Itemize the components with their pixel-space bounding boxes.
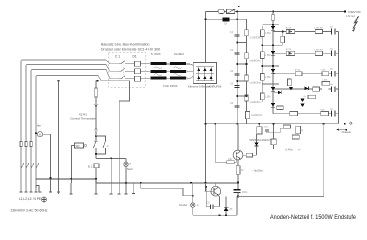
- mid rail: [206, 123, 339, 125]
- wire cap down to return rail: [237, 192, 239, 196]
- thermostat contact symbol: [95, 125, 98, 136]
- svg-text:Drossel oder Elemente SC3 4 HV: Drossel oder Elemente SC3 4 HV 30K: [101, 48, 161, 52]
- node fan drop on rail: [50, 177, 52, 179]
- node second rail: [205, 18, 207, 20]
- contactor contacts: [119, 61, 129, 79]
- dashed link contactor: [122, 62, 124, 78]
- box R26: [292, 135, 299, 139]
- zener D10: [254, 142, 258, 146]
- small diodes x302: [300, 99, 304, 103]
- ladder row nodes: [236, 42, 238, 44]
- row3 cap: [331, 71, 335, 77]
- node sonder: [192, 195, 194, 197]
- wire drop x58.5: [58, 81, 60, 192]
- svg-text:xxx0kOhm: xxx0kOhm: [250, 101, 261, 104]
- node fuse branch: [97, 80, 99, 82]
- row4 cap: [331, 86, 335, 92]
- svg-text:xxx0kOhm: xxx0kOhm: [250, 60, 261, 63]
- wire Q2 right resistor: [246, 153, 252, 157]
- node emitter rail: [237, 182, 239, 184]
- svg-text:Anoden-Netzteil f. 1500W Endst: Anoden-Netzteil f. 1500W Endstufe: [270, 214, 356, 221]
- transformer T1 windings: [151, 62, 167, 79]
- row5 resistor: [290, 112, 298, 116]
- contactor dashed box: [109, 53, 146, 88]
- HV flash symbol: [353, 16, 359, 28]
- terminal ticks L1 L2 L3 N PE: [20, 191, 42, 193]
- chassis arrow: [338, 129, 346, 131]
- cap C10 polarized: [237, 188, 239, 191]
- right chain row1: [273, 31, 339, 33]
- wire Q2 collector: [237, 124, 239, 150]
- svg-text:L1,L2,L3: L1,L2,L3: [19, 197, 32, 201]
- ladder column V2 resistors: [246, 19, 248, 123]
- resistor R23 emitter: [236, 166, 240, 175]
- right chain row5: [273, 113, 339, 115]
- svg-text:U ANa: U ANa: [285, 148, 293, 152]
- switch S1 right contact: [96, 136, 106, 154]
- V2 labels: [250, 37, 263, 104]
- wire: [95, 97, 97, 125]
- wire contactor exit down: [119, 81, 129, 183]
- resistor R21: [257, 127, 262, 134]
- wire Q3 collector up: [215, 183, 217, 186]
- wire lamp bottom: [125, 167, 127, 184]
- node lamp feed: [110, 158, 112, 160]
- T2 terminal circles: [186, 63, 188, 79]
- svg-text:Control Termostate: Control Termostate: [70, 117, 96, 121]
- row4 vertical resistor: [288, 79, 292, 86]
- wire L2 bus: [26, 65, 119, 193]
- bottom rail left dark: [36, 178, 96, 180]
- fuse F1c on L3: [30, 142, 32, 147]
- wire W1 left loop: [72, 146, 75, 184]
- T1 winding squiggles: [154, 67, 162, 76]
- wire junction to lamp line: [95, 154, 97, 158]
- terminal tick x58.5: [57, 191, 60, 193]
- svg-text:Netz: Netz: [127, 167, 133, 171]
- bridge rails: [196, 67, 214, 81]
- wire control branch x96: [95, 81, 97, 88]
- svg-text:Bausatz bzw. Bau-Kombination: Bausatz bzw. Bau-Kombination: [101, 42, 149, 46]
- node rejoin: [95, 153, 97, 155]
- svg-text:100n: 100n: [242, 191, 248, 194]
- node mid rail: [205, 123, 207, 125]
- transistor Q3: [211, 186, 221, 196]
- svg-text:1,5M: 1,5M: [265, 76, 270, 79]
- row3 box1: [295, 72, 302, 76]
- svg-text:1,5M: 1,5M: [322, 80, 327, 82]
- svg-text:fan: fan: [37, 124, 41, 128]
- return rail bottom: [238, 124, 324, 197]
- svg-text:M: M: [39, 132, 41, 136]
- svg-text:2x10kV: 2x10kV: [174, 52, 184, 56]
- node R21 top: [259, 123, 261, 125]
- wire bridge negative down: [205, 84, 207, 183]
- switch contacts on phase lines: [21, 163, 39, 168]
- bridge diodes top row: [197, 68, 212, 79]
- svg-text:+/-: +/-: [298, 148, 301, 152]
- diode sideways row4b: [305, 87, 309, 91]
- wire lamp top: [125, 158, 127, 162]
- node top rail: [236, 11, 238, 13]
- ladder row connects: [237, 25, 283, 96]
- node top rail 2: [272, 11, 274, 13]
- top rail: [206, 11, 345, 13]
- row2 resistor: [315, 51, 322, 55]
- wire R21: [258, 124, 260, 127]
- wire sonder branch: [141, 183, 193, 196]
- ladder column V4 diodes: [272, 12, 274, 114]
- row1 resistor: [315, 29, 322, 33]
- right chain row3: [273, 73, 339, 75]
- terminal drops: [59, 183, 134, 194]
- right bus V5: [338, 32, 340, 124]
- switch S1 left contact: [94, 136, 97, 154]
- svg-text:1,5M: 1,5M: [265, 54, 270, 57]
- lamp Netz H1: [124, 162, 128, 166]
- svg-text:0.2M R2R1: 0.2M R2R1: [250, 37, 263, 40]
- svg-text:HV out: HV out: [347, 14, 355, 18]
- svg-text:1,5M 3W: 1,5M 3W: [314, 28, 324, 30]
- ladder column V3 resistors: [261, 26, 263, 102]
- resistor R25: [283, 125, 290, 128]
- svg-text:1,5M: 1,5M: [265, 96, 270, 99]
- wire zener down: [256, 146, 258, 155]
- wire L1 bus top: [21, 60, 119, 192]
- T2 winding squiggles: [174, 67, 182, 76]
- nodes on bottom rail: [95, 178, 97, 180]
- svg-text:3,5kV DC: 3,5kV DC: [348, 10, 362, 14]
- wire N bus: [36, 76, 130, 193]
- svg-text:100n: 100n: [264, 127, 270, 129]
- svg-text:~ 6µObla: ~ 6µObla: [252, 169, 263, 173]
- bottom return rail: [193, 214, 237, 216]
- fan motor M1: [37, 132, 42, 137]
- wire bridge positive up: [205, 12, 207, 63]
- V4 resistor top: [271, 15, 275, 21]
- capacitor C13: [265, 129, 269, 131]
- resistor stacked row5a: [277, 106, 284, 109]
- svg-text:D 1: D 1: [88, 164, 93, 168]
- fuse blocks D1: [135, 61, 141, 81]
- node split: [95, 135, 97, 137]
- PE step link: [36, 186, 39, 193]
- V1 cap labels: [230, 31, 234, 105]
- row4 resistor: [322, 82, 330, 86]
- node on N line: [58, 80, 60, 82]
- wire base: [215, 124, 227, 163]
- svg-text:Dr: Dr: [225, 23, 228, 26]
- resistor R27 vertical: [296, 126, 301, 134]
- svg-text:Klemme 5-Brücke: Klemme 5-Brücke: [188, 85, 211, 89]
- lamp Sonder: [191, 203, 195, 207]
- node: [71, 178, 73, 180]
- row2 diode box: [286, 51, 295, 55]
- resistor R24: [271, 139, 276, 145]
- wire Q3 emitter down: [218, 195, 219, 207]
- transistor Q2: [233, 150, 243, 160]
- svg-text:Sonder: Sonder: [179, 203, 188, 207]
- wire cap to R25: [267, 128, 284, 133]
- svg-text:BY25: BY25: [286, 49, 292, 51]
- svg-text:230/400V 3-AC 50-60Hz: 230/400V 3-AC 50-60Hz: [11, 209, 48, 213]
- small value labels right rows: [286, 27, 334, 112]
- choke L1: [223, 17, 230, 21]
- chassis terminal square: [344, 123, 346, 125]
- svg-text:ANRUF06: ANRUF06: [209, 85, 222, 89]
- wire D1 down: [95, 168, 97, 183]
- wire fan to drop: [43, 134, 51, 192]
- svg-text:BY25: BY25: [295, 70, 301, 72]
- relay coil W1 box: [75, 143, 84, 148]
- svg-text:Chassis: Chassis: [342, 130, 352, 134]
- resistor R11 vertical: [282, 32, 284, 37]
- svg-text:BY25: BY25: [286, 27, 292, 29]
- coil link circle: [84, 144, 86, 146]
- wire L3 bus: [31, 70, 119, 193]
- row1 cap: [331, 29, 335, 35]
- wire x111 drop: [110, 158, 112, 183]
- disconnect arrow symbol: [95, 104, 98, 108]
- svg-text:T-bb KPsS: T-bb KPsS: [163, 84, 177, 88]
- svg-text:1,5M 3W: 1,5M 3W: [314, 49, 324, 51]
- wire Q3 base: [204, 190, 214, 192]
- wires T1-T2 links: [167, 64, 171, 78]
- output terminal square: [344, 11, 346, 13]
- wire lamp vertical: [192, 196, 194, 203]
- wire lamp feed up: [192, 183, 194, 196]
- row4 diode: [289, 87, 293, 91]
- row3 box2: [322, 72, 329, 76]
- transformer T2 windings: [170, 62, 186, 79]
- svg-text:1,5M: 1,5M: [265, 32, 270, 35]
- ground symbol PE: [41, 197, 46, 202]
- fuse F2: [95, 88, 98, 97]
- wires T2 to bridge: [188, 64, 194, 78]
- fuse F3: [218, 9, 224, 13]
- diode sideways row4a: [278, 91, 282, 95]
- svg-text:xxx0kOhm: xxx0kOhm: [250, 82, 261, 85]
- row5 cap: [332, 111, 335, 117]
- node return corner: [237, 196, 239, 198]
- terminal tick x50.5: [49, 191, 52, 193]
- row1 diode box: [286, 29, 295, 33]
- svg-text:1,5M: 1,5M: [321, 70, 326, 72]
- diamond mark: [349, 122, 352, 124]
- cap C11: [206, 206, 210, 208]
- svg-text:C 1: C 1: [115, 55, 120, 59]
- row2 cap: [331, 51, 335, 57]
- resistor R22 base: [227, 161, 234, 164]
- right chain row4: [274, 88, 339, 90]
- resistor above diodes: [308, 95, 316, 98]
- row5 box: [321, 112, 329, 116]
- node lamp bottom rail: [125, 182, 127, 184]
- row4 box: [313, 87, 320, 91]
- tick mark top: [238, 6, 239, 7]
- svg-text:D1: D1: [133, 55, 137, 59]
- zener D11: [225, 197, 227, 208]
- svg-text:R: R: [302, 130, 304, 133]
- right chain row2: [273, 52, 339, 54]
- fuse F1a on L1: [20, 142, 22, 147]
- bridge rectifier box: [193, 63, 216, 84]
- svg-text:N PE: N PE: [34, 197, 41, 201]
- svg-text:W1: W1: [76, 144, 81, 148]
- wire Q2 emitter: [237, 160, 239, 166]
- svg-text:60ShK2bmbS2rSY: 60ShK2bmbS2rSY: [250, 139, 271, 142]
- resistor R20 vertical above rail: [246, 111, 250, 118]
- svg-text:1,5M: 1,5M: [320, 109, 325, 111]
- svg-text:xxx0kOhm: xxx0kOhm: [251, 114, 262, 117]
- svg-text:5. KRS: 5. KRS: [151, 52, 161, 56]
- breaker S3: [227, 9, 235, 13]
- fuse F1b on L2: [25, 142, 27, 147]
- ladder column V1 caps: [236, 12, 238, 124]
- fan junction node: [35, 133, 37, 135]
- second rail: [206, 18, 247, 20]
- wire lamp feed: [96, 157, 126, 159]
- step: [96, 179, 237, 183]
- wire cap left: [205, 187, 207, 207]
